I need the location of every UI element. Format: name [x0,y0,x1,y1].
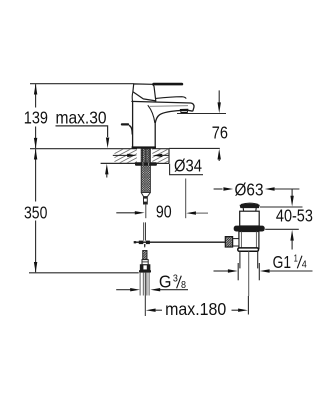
G1 1/4 underline [269,270,313,272]
G3/8 underline [159,289,189,291]
bottom extension line from flange [265,228,299,230]
pop-up rod knob (left of body) [121,123,133,134]
deck top line [101,148,137,150]
max.30 arrow up to deck bottom [105,164,108,175]
lever block shoulder curve [131,92,134,102]
drain threaded tail [239,251,241,268]
spout level extension line [177,113,226,115]
rod clamp stem pin [144,244,146,247]
deck bottom line [101,162,138,164]
svg-text:Ø34: Ø34 [174,155,202,175]
deck right edge [168,149,170,164]
svg-text:350: 350 [24,202,48,222]
dimension 350 vertical line [35,149,37,272]
bottom extension line (hose end level) [29,272,139,274]
drain body below flange [239,232,259,249]
svg-text:3: 3 [173,273,178,285]
hose union knurled piece [143,251,147,260]
dimension 40-53 [260,190,313,250]
body-spout junction curve [148,105,155,123]
lever handle bar [152,83,183,86]
left arrow [146,309,156,312]
drain centerline [248,251,250,296]
svg-text:90: 90 [156,202,172,222]
deck top extension to right (76 reference) [169,147,220,149]
top extension line (faucet top level) [30,83,134,85]
small connector cylinder [144,197,148,204]
right tick [247,296,249,315]
svg-text:139: 139 [24,108,48,128]
right tick [258,263,260,280]
dimension 76 [177,90,228,161]
lever underside line [156,97,186,99]
centerline / max180 left tick [144,273,146,316]
svg-text:40-53: 40-53 [276,206,313,226]
pull rod (vertical, below) [143,222,145,240]
body left edge [132,102,134,149]
Ø34 leader L-line [170,164,203,175]
90 right arrow [186,211,196,214]
thin wire below connector (90 left tick) [145,204,147,218]
svg-text:G: G [159,271,172,291]
max.30 arrow down to deck top [106,138,109,149]
dimension G1 1/4 [214,252,313,281]
horizontal linkage rod [134,241,225,243]
connection hoses (tails) [140,273,149,296]
left tick [237,263,239,280]
svg-text:76: 76 [212,122,228,142]
G3/8 left arrow [116,289,131,291]
hose union middle piece [142,260,148,265]
down arrow [218,90,220,103]
lever front block [133,84,156,101]
spout inner line [150,105,188,108]
dimension Ø63 [214,179,300,199]
up arrow to deck [218,149,221,160]
right arrow [260,269,270,272]
drain side knob [225,237,232,247]
extension line at deck top, left of deck [30,148,101,150]
faucet base bar on deck [132,146,156,148]
shank taper [141,193,150,197]
aerator [180,110,188,113]
drain side stub (rod attach) [233,239,239,246]
svg-text:1: 1 [294,252,298,264]
spout top edge [131,101,194,111]
dimension 139 vertical line [35,84,37,148]
90 left arrow [116,212,136,214]
drain flange (Ø63) [234,226,265,232]
spout underside [155,110,193,123]
threaded shank through deck [141,149,150,193]
139 arrow up [34,84,37,95]
label G 3/8 [159,271,189,291]
svg-text:Ø63: Ø63 [235,179,264,199]
G3/8 right arrow [150,288,160,291]
rod left end cap [134,241,137,243]
drain upper body [240,211,260,226]
down arrow above [291,190,293,197]
dimension max.180 [146,296,249,319]
up arrow below [290,230,293,241]
drain cap neck [243,208,256,211]
svg-text:4: 4 [302,259,307,271]
dimension Ø34: right arrow [152,154,162,157]
svg-text:max.30: max.30 [56,108,107,128]
dimension 90: right extension line [185,179,187,219]
mounting nut below deck [135,162,157,165]
rod clamp cross: right block [146,241,150,245]
rod clamp cross: left block [139,241,144,245]
svg-text:G1: G1 [273,252,291,272]
dimension Ø34: left arrow [113,154,129,156]
body right edge [154,123,156,148]
deck (counter) cross-section [95,148,220,164]
svg-text:max.180: max.180 [165,299,226,319]
left arrow [214,270,229,272]
350 arrow up [34,149,37,160]
faucet body outline [131,101,194,148]
top extension line from cap [260,206,303,208]
350 arrow down [34,262,37,273]
max.30 leader underline and corner [56,126,108,137]
hose union flange [139,270,151,273]
pop-up waste drain: cap [240,203,259,207]
139 arrow down [34,138,37,149]
right arrow [238,309,248,312]
deck hatching [95,149,191,164]
hose union hex [140,265,149,270]
drain collar [238,248,259,251]
